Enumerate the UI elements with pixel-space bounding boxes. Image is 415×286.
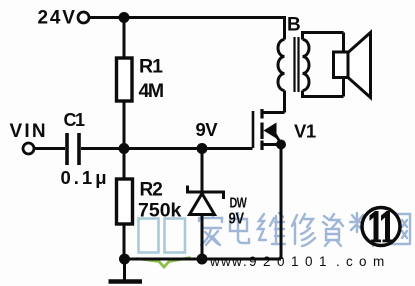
svg-text:R2: R2	[140, 180, 163, 201]
svg-text:B: B	[287, 15, 301, 36]
svg-text:24V: 24V	[38, 8, 77, 29]
node junction 9V	[197, 143, 208, 154]
char wang (mostly behind circle)	[386, 214, 410, 244]
svg-text:0101: 0101	[277, 254, 327, 269]
speaker	[334, 33, 371, 98]
zener diode DW	[188, 186, 224, 215]
node junction top	[119, 12, 130, 23]
svg-text:V1: V1	[294, 121, 316, 142]
node junction zener bottom	[197, 254, 208, 265]
watermark url www.920101.com	[209, 254, 384, 269]
wire: bottom rail	[124, 258, 281, 261]
body arrow tail	[273, 131, 282, 145]
svg-text:.com: .com	[336, 254, 384, 269]
wire: drain stub to transformer	[262, 111, 285, 114]
svg-text:0.1μ: 0.1μ	[61, 167, 110, 188]
wire: VIN terminal to C1	[34, 147, 65, 150]
transformer B secondary	[303, 33, 344, 97]
watermark green swoosh	[136, 258, 191, 268]
ground bar	[109, 279, 143, 284]
wire: C1 to gate rail	[81, 147, 253, 150]
wire: zener top lead	[201, 149, 204, 193]
watermark chinese text	[199, 212, 410, 246]
terminal VIN	[23, 143, 34, 154]
wire: node to R2	[123, 149, 126, 180]
svg-text:VIN: VIN	[10, 121, 48, 142]
node junction VIN/R2	[119, 143, 130, 154]
svg-text:www.: www.	[209, 254, 247, 269]
svg-text:R1: R1	[139, 56, 163, 78]
svg-text:4M: 4M	[139, 80, 163, 102]
char dian	[230, 213, 249, 243]
svg-text:750k: 750k	[138, 200, 182, 222]
transformer core	[295, 37, 299, 92]
watermark book icon	[139, 219, 186, 253]
source junction dot	[276, 140, 286, 150]
source stub	[262, 143, 281, 146]
wire: top rail down to R1	[123, 18, 126, 59]
wire: R1 bottom to VIN node	[123, 101, 126, 150]
char jia	[199, 212, 222, 245]
resistor R2	[117, 179, 133, 224]
transistor V1 (MOSFET)	[253, 109, 282, 150]
char xiu	[292, 214, 315, 246]
wire: top rail 24V to transformer	[90, 16, 285, 19]
terminal 24V	[78, 12, 89, 23]
char wei	[258, 213, 285, 244]
wire: MOSFET source down to rail	[280, 145, 283, 260]
node junction ground rail left	[119, 254, 130, 265]
transformer B primary	[278, 16, 284, 113]
main circuit strokes	[34, 18, 285, 281]
figure number circled 11	[362, 208, 400, 246]
wire: zener bottom lead	[201, 214, 204, 259]
svg-text:C1: C1	[64, 110, 85, 130]
svg-text:9V: 9V	[196, 119, 219, 140]
channel segments	[260, 109, 263, 150]
svg-text:9V: 9V	[229, 210, 245, 227]
wire: R2 bottom to ground rail	[123, 224, 126, 259]
resistor R1	[117, 58, 133, 101]
body arrow head	[264, 123, 277, 139]
capacitor C1	[67, 133, 79, 165]
gate plate	[252, 111, 255, 148]
char liao	[350, 213, 375, 246]
char zi	[323, 214, 343, 246]
svg-text:DW: DW	[230, 194, 248, 211]
ground	[123, 259, 126, 280]
svg-text:92: 92	[249, 254, 271, 269]
